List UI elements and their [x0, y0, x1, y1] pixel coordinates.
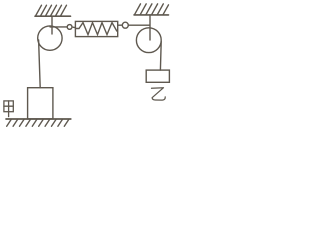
block B (yi): [146, 70, 169, 82]
pulley P2 (right): [136, 28, 161, 53]
label jia: [4, 101, 13, 117]
wire: left hook to spring box: [72, 26, 76, 29]
spring scale box: [75, 21, 117, 36]
rope: pulley P2 to block B: [159, 42, 162, 71]
spring: [76, 23, 117, 35]
pulley support rod (left): [51, 16, 53, 34]
wire: pulley P1 to left hook: [50, 26, 67, 28]
wire: right hook to pulley P2: [128, 24, 150, 26]
ceiling (left): [35, 5, 71, 16]
hook ring (right): [122, 22, 128, 28]
hook ring (left): [67, 25, 72, 30]
wire: spring box to right hook: [118, 24, 123, 26]
rope: pulley P1 to block A: [39, 40, 41, 88]
ceiling (right): [134, 4, 169, 15]
pulley P1 (left): [38, 26, 62, 50]
ground: [6, 119, 71, 126]
block A (jia): [28, 88, 53, 119]
pulley support rod (right): [149, 15, 151, 40]
label yi: [152, 88, 166, 100]
